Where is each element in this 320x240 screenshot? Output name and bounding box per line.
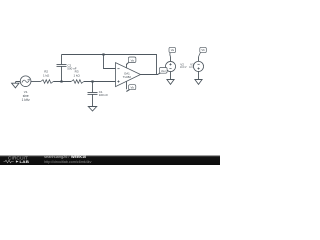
svg-text:1 kΩ: 1 kΩ: [43, 74, 50, 78]
svg-text:1 kHz: 1 kHz: [22, 98, 31, 102]
svg-text:10.0 V: 10.0 V: [180, 65, 187, 69]
svg-text:seanhuang26 /: seanhuang26 /: [44, 155, 69, 159]
svg-text:TL082: TL082: [123, 75, 132, 79]
svg-text:WEEK10: WEEK10: [71, 155, 86, 159]
svg-text:10 V: 10 V: [189, 65, 193, 69]
svg-text:Vb: Vb: [130, 86, 134, 90]
svg-text:http://circuitlab.com/c6mk4kv: http://circuitlab.com/c6mk4kv: [44, 160, 92, 164]
svg-text:LAB: LAB: [20, 160, 30, 164]
svg-text:1 kΩ: 1 kΩ: [73, 74, 80, 78]
svg-text:Vout: Vout: [161, 69, 166, 73]
svg-text:Vb: Vb: [201, 48, 205, 52]
svg-text:500 nF: 500 nF: [67, 67, 77, 71]
svg-text:100 nF: 100 nF: [99, 93, 109, 97]
svg-text:Va: Va: [131, 58, 135, 62]
svg-text:Va: Va: [171, 48, 175, 52]
